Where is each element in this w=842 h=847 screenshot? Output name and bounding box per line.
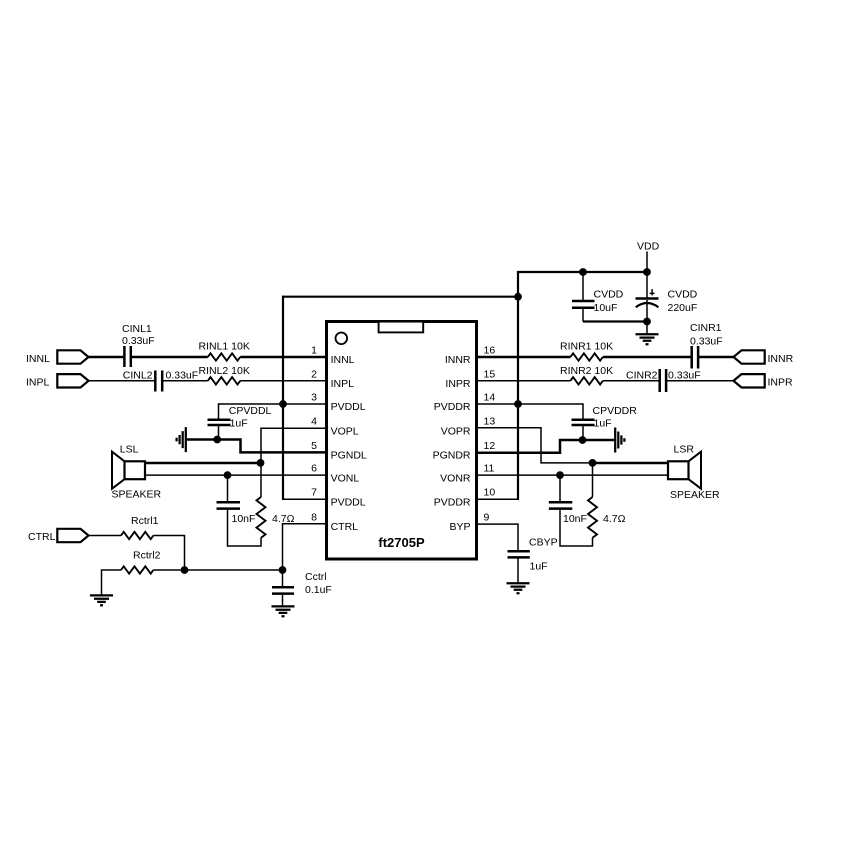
IC U1 body — [327, 322, 477, 560]
svg-text:VOPR: VOPR — [441, 425, 471, 437]
IC U1 pin-1 indicator circle — [336, 333, 348, 345]
port INPR connector — [734, 374, 765, 387]
svg-text:2: 2 — [311, 368, 317, 380]
capacitor CVDD 220uF top plate — [636, 297, 659, 300]
wire pin10 PVDDR stub — [477, 498, 519, 500]
wire RINL2 to IC pin2 — [240, 380, 326, 382]
svg-text:VONR: VONR — [440, 472, 471, 484]
capacitor 10nF right bottom wire to resistor bottom — [560, 509, 593, 546]
svg-text:PVDDR: PVDDR — [434, 496, 471, 508]
wire RINL1 to IC pin1 — [240, 356, 326, 359]
svg-text:Rctrl2: Rctrl2 — [133, 550, 161, 562]
capacitor CBYP plates — [508, 550, 530, 553]
svg-text:10nF: 10nF — [232, 513, 256, 525]
wire CPVDDR node to pin12 PGNDR — [477, 440, 583, 453]
svg-text:0.1uF: 0.1uF — [305, 584, 332, 596]
svg-text:INNR: INNR — [768, 353, 794, 365]
node CPVDDL ground junction — [213, 436, 221, 444]
ground left of CPVDDL (rotated) — [177, 427, 186, 452]
wire speaker node down to resistor 4.7 left — [260, 463, 262, 497]
wire speaker LSL plus to node — [145, 462, 261, 465]
capacitor 10nF left plates — [217, 501, 241, 504]
wire CINR2 to INPR port — [666, 380, 734, 382]
svg-text:RINR1 10K: RINR1 10K — [560, 341, 613, 353]
wire node to speaker LSR plus — [593, 462, 669, 465]
resistor RINR2 — [570, 377, 602, 384]
svg-text:9: 9 — [484, 511, 490, 523]
svg-text:0.33uF: 0.33uF — [166, 370, 199, 382]
svg-text:4: 4 — [311, 416, 317, 428]
svg-text:0.33uF: 0.33uF — [690, 336, 723, 348]
capacitor CINR1 plates — [690, 346, 693, 369]
capacitor CVDD 220uF plus sign — [650, 289, 655, 295]
wire speaker node down to resistor 4.7 right — [592, 463, 594, 497]
svg-text:RINL2 10K: RINL2 10K — [199, 365, 250, 377]
wire IC pin13 VOPR down to speaker node — [477, 428, 593, 463]
wire IC pin8 CTRL — [283, 524, 327, 570]
capacitor 10nF right top lead — [559, 475, 561, 502]
svg-text:Cctrl: Cctrl — [305, 571, 327, 583]
svg-text:RINR2 10K: RINR2 10K — [560, 365, 613, 377]
capacitor CVDD 220uF top lead — [646, 272, 648, 299]
svg-text:3: 3 — [311, 392, 317, 404]
wire RINR2 to CINR2 — [603, 380, 660, 382]
capacitor 10nF left top lead — [227, 475, 229, 502]
capacitor CPVDDL plates — [208, 419, 231, 422]
svg-text:INPR: INPR — [445, 378, 471, 390]
node ctrl divider junction — [181, 566, 189, 574]
node speaker LSL plus junction — [257, 459, 265, 467]
speaker LSL horn — [112, 452, 125, 489]
svg-text:INPL: INPL — [26, 377, 50, 389]
wire pin7 PVDDL stub — [282, 498, 326, 500]
svg-text:BYP: BYP — [449, 521, 470, 533]
resistor RINL2 — [208, 377, 240, 384]
wire VDD rail top — [518, 271, 648, 273]
capacitor CPVDDR plates — [572, 419, 595, 422]
capacitor Cctrl plates — [272, 586, 294, 589]
svg-text:CINL2: CINL2 — [123, 370, 153, 382]
svg-text:16: 16 — [484, 345, 496, 357]
svg-text:PVDDL: PVDDL — [331, 401, 366, 413]
wire IC pin3 PVDDL — [219, 403, 327, 405]
wire INPL to CINL2 — [89, 380, 156, 382]
svg-text:INPL: INPL — [331, 378, 355, 390]
wire Rctrl2 to node — [153, 569, 184, 571]
IC U1 left pin names — [331, 354, 367, 533]
capacitor CPVDDR bottom lead — [582, 425, 584, 440]
svg-text:PVDDL: PVDDL — [331, 496, 366, 508]
svg-text:INNR: INNR — [445, 354, 471, 366]
resistor RINL1 — [208, 353, 240, 360]
svg-text:INNL: INNL — [331, 354, 355, 366]
ground below Cctrl — [272, 606, 295, 616]
capacitor CPVDDR top lead — [582, 403, 584, 419]
resistor 4.7ohm left — [257, 497, 266, 538]
node pin14 junction on vertical rail — [514, 400, 522, 408]
svg-text:8: 8 — [311, 511, 317, 523]
svg-text:ft2705P: ft2705P — [378, 535, 425, 550]
wire CPVDDR bottom to ground — [583, 439, 615, 442]
wire CTRL to Rctrl1 — [89, 535, 122, 537]
wire IC pin9 BYP to CBYP — [477, 524, 518, 551]
svg-text:12: 12 — [484, 440, 496, 452]
svg-text:PVDDR: PVDDR — [434, 401, 471, 413]
svg-text:6: 6 — [311, 463, 317, 475]
svg-text:1uF: 1uF — [530, 561, 548, 573]
IC U1 notch — [379, 322, 424, 333]
svg-text:INPR: INPR — [768, 377, 794, 389]
node 10nF right top junction — [556, 471, 564, 479]
svg-text:13: 13 — [484, 416, 496, 428]
svg-text:1uF: 1uF — [230, 418, 248, 430]
wire CINL2 to RINL2 — [162, 380, 208, 382]
ground right of CPVDDR (rotated) — [615, 428, 624, 453]
node pin3 junction on vertical rail — [279, 400, 287, 408]
wire IC pin16 INNR to RINR1 — [477, 356, 570, 359]
wire right vertical rail PVDDR — [517, 297, 519, 500]
wire CPVDDL bottom to ground — [186, 438, 218, 441]
speaker LSL box — [125, 461, 146, 479]
svg-text:SPEAKER: SPEAKER — [670, 489, 720, 501]
resistor 4.7ohm right — [588, 497, 597, 538]
wire ctrl node to Cctrl node — [185, 569, 283, 571]
port CTRL connector — [57, 529, 88, 542]
svg-text:220uF: 220uF — [668, 302, 698, 314]
resistor Rctrl2 — [121, 566, 153, 573]
node CVDD220 bottom junction — [643, 318, 651, 326]
IC U1 right pin names — [433, 354, 471, 533]
svg-text:5: 5 — [311, 440, 317, 452]
capacitor 10nF right plates — [549, 501, 573, 504]
svg-text:CBYP: CBYP — [529, 537, 558, 549]
ground below CBYP — [507, 583, 530, 593]
capacitor Cctrl bottom lead — [282, 594, 284, 607]
wire IC pin14 PVDDR to CPVDDR — [477, 403, 583, 405]
wire speaker LSR minus to IC pin11 VONR — [477, 474, 668, 476]
wire CVDD bottom rail — [583, 320, 647, 322]
node speaker LSR plus junction — [589, 459, 597, 467]
resistor RINR1 — [570, 353, 602, 360]
svg-text:LSL: LSL — [120, 443, 139, 455]
svg-text:10nF: 10nF — [563, 513, 587, 525]
capacitor CVDD 10uF bottom lead — [582, 308, 584, 322]
svg-text:7: 7 — [311, 487, 317, 499]
wire CINL1 to RINL1 — [132, 356, 208, 359]
svg-text:VONL: VONL — [331, 472, 360, 484]
capacitor CBYP bottom lead — [517, 558, 519, 584]
svg-text:1: 1 — [311, 345, 317, 357]
wire INNL to CINL1 — [89, 356, 124, 359]
wire CINR1 to INNR port — [698, 356, 734, 359]
wire IC pin15 INPR to RINR2 — [477, 380, 570, 382]
port INNL connector — [57, 350, 88, 363]
wire speaker LSL minus to IC pin6 VONL — [145, 474, 326, 476]
capacitor CPVDDL bottom lead — [218, 425, 220, 439]
node CPVDDR ground junction — [579, 436, 587, 444]
node 10nF top junction — [224, 471, 232, 479]
svg-text:INNL: INNL — [26, 353, 50, 365]
wire IC pin4 VOPL down to speaker node — [261, 428, 326, 463]
wire RINR1 to CINR1 — [603, 356, 692, 359]
ground below Rctrl2 — [90, 595, 113, 605]
svg-text:Rctrl1: Rctrl1 — [131, 515, 159, 527]
IC U1 left pin numbers 1-8 — [311, 345, 317, 524]
svg-text:11: 11 — [484, 463, 495, 475]
capacitor CVDD 220uF bottom lead — [646, 300, 648, 335]
capacitor CPVDDL top lead — [218, 403, 220, 419]
svg-text:CINR2: CINR2 — [626, 370, 658, 382]
node CVDD10 on rail — [579, 268, 587, 276]
svg-text:CTRL: CTRL — [331, 521, 359, 533]
svg-text:PGNDR: PGNDR — [433, 450, 471, 462]
svg-text:LSR: LSR — [674, 443, 695, 455]
resistor Rctrl1 — [121, 532, 153, 539]
svg-text:10uF: 10uF — [594, 302, 618, 314]
svg-text:0.33uF: 0.33uF — [668, 370, 701, 382]
svg-text:CPVDDL: CPVDDL — [229, 405, 272, 417]
node rail/vertical junction — [514, 293, 522, 301]
IC U1 right pin numbers 16-9 — [484, 345, 496, 524]
svg-text:10: 10 — [484, 487, 496, 499]
wire rail left to IC left side — [283, 296, 518, 298]
ground below CVDD220 — [636, 334, 659, 344]
capacitor CVDD 10uF top lead — [582, 272, 584, 300]
capacitor 10nF left bottom wire to resistor bottom — [228, 509, 262, 546]
svg-text:CPVDDR: CPVDDR — [593, 405, 638, 417]
svg-text:CVDD: CVDD — [668, 289, 698, 301]
wire rail corner down to node — [517, 271, 519, 297]
speaker LSR horn — [689, 452, 702, 489]
speaker LSR box — [668, 461, 689, 479]
svg-text:CINL1: CINL1 — [122, 323, 152, 335]
port INNR connector — [734, 350, 765, 363]
capacitor CVDD 220uF curved plate — [636, 303, 659, 307]
capacitor CINL1 plates — [123, 346, 126, 367]
capacitor CINR2 plates — [658, 369, 661, 392]
capacitor Cctrl top lead — [282, 570, 284, 587]
svg-text:VDD: VDD — [637, 241, 660, 253]
svg-text:0.33uF: 0.33uF — [122, 335, 155, 347]
svg-text:4.7Ω: 4.7Ω — [603, 513, 626, 525]
port INPL connector — [57, 374, 88, 387]
capacitor CVDD 10uF plates — [572, 300, 595, 303]
svg-text:RINL1 10K: RINL1 10K — [199, 341, 250, 353]
node VDD junction — [643, 268, 651, 276]
svg-text:CTRL: CTRL — [28, 531, 56, 543]
svg-text:1uF: 1uF — [594, 418, 612, 430]
svg-text:VOPL: VOPL — [331, 425, 359, 437]
svg-text:14: 14 — [484, 392, 496, 404]
wire CPVDDL node to pin5 PGNDL — [217, 440, 326, 453]
wire Rctrl1 to ctrl node — [153, 536, 184, 571]
svg-text:CINR1: CINR1 — [690, 322, 722, 334]
svg-text:SPEAKER: SPEAKER — [112, 489, 162, 501]
wire VDD stub — [646, 252, 648, 273]
capacitor CINL2 plates — [154, 371, 157, 392]
wire left vertical rail PVDDL — [282, 296, 284, 500]
node Cctrl junction — [279, 566, 287, 574]
wire ground to Rctrl2 — [102, 570, 122, 595]
svg-text:CVDD: CVDD — [594, 289, 624, 301]
svg-text:15: 15 — [484, 368, 496, 380]
svg-text:PGNDL: PGNDL — [331, 450, 367, 462]
